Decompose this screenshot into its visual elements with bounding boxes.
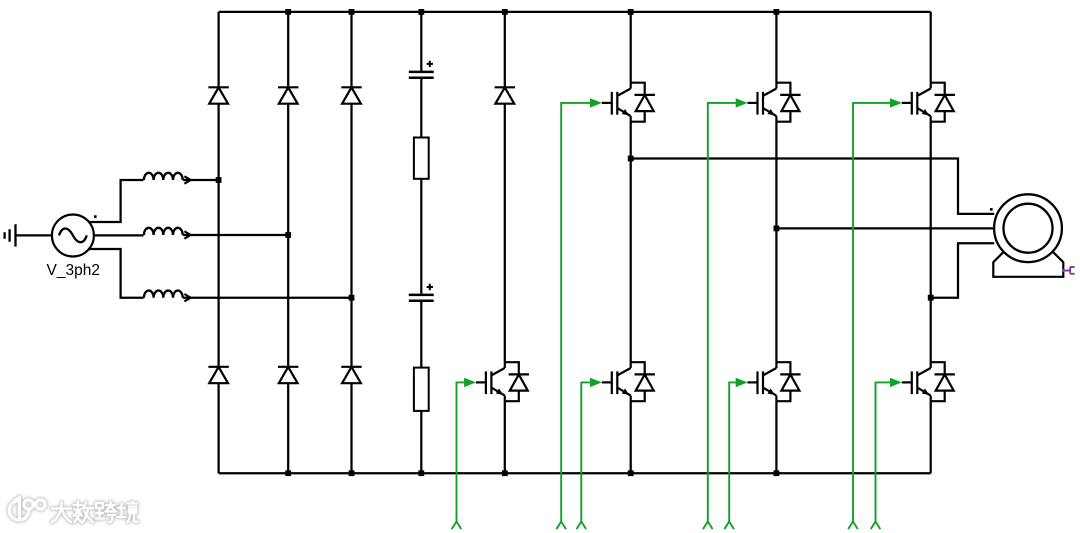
motor M1	[990, 194, 1063, 277]
diode D2	[278, 87, 298, 103]
wire phase C	[183, 297, 352, 299]
node phase A output	[628, 156, 634, 162]
gate wire Q1 (top col6)	[556, 98, 602, 529]
diode D7	[495, 87, 515, 103]
diode D5	[278, 367, 298, 383]
node bottom rail col4	[418, 470, 424, 476]
wire phase A to motor	[631, 159, 995, 214]
node top rail col3	[349, 9, 355, 15]
wire phase C to motor	[931, 243, 995, 298]
node phase C / column 3	[349, 295, 355, 301]
IGBT Q5 (bottom, col6)	[602, 362, 655, 401]
wire phase A	[183, 179, 219, 181]
node top rail col5	[502, 9, 508, 15]
watermark logo	[9, 498, 137, 523]
wire column 6	[630, 12, 632, 473]
node phase B output	[774, 226, 780, 232]
gate wire Q2 (top col7)	[703, 98, 748, 529]
wire source mid phase	[94, 234, 144, 236]
capacitor C1	[409, 61, 434, 78]
diode D1	[208, 87, 228, 103]
node bottom rail col5	[502, 470, 508, 476]
wire column 2	[287, 12, 289, 473]
wire phase B to motor	[776, 227, 994, 229]
bottom rail wire	[219, 472, 931, 474]
inductor L2	[144, 228, 191, 239]
node bottom rail col3	[349, 470, 355, 476]
IGBT Q3 (top, col8)	[902, 83, 955, 122]
wire ground to source	[16, 234, 53, 236]
IGBT Q6 (bottom, col7)	[748, 362, 801, 401]
wire column 1	[217, 12, 219, 473]
inductor L1	[144, 173, 191, 184]
wire source top phase	[89, 180, 143, 222]
svg-text:V_3ph2: V_3ph2	[47, 262, 100, 279]
diode D3	[341, 87, 361, 103]
wire column 7	[775, 12, 777, 473]
wire column 4 (DC link)	[420, 12, 422, 473]
wire column 8	[930, 12, 932, 473]
diode D4	[208, 367, 228, 383]
node phase C output	[928, 295, 934, 301]
node top rail col7	[774, 9, 780, 15]
top rail wire	[219, 11, 931, 13]
AC source V_3ph2	[52, 215, 97, 257]
resistor R2	[414, 368, 429, 411]
resistor R1	[414, 138, 429, 179]
IGBT Q1 (top, col6)	[602, 83, 655, 122]
ground	[5, 224, 16, 246]
node bottom rail col7	[774, 470, 780, 476]
node top rail col4	[418, 9, 424, 15]
node bottom rail col6	[628, 470, 634, 476]
wire column 5	[504, 12, 506, 473]
gate wire Q3 (top col8)	[848, 98, 902, 529]
IGBT Q4 (bottom, col5)	[476, 362, 529, 401]
node top rail col6	[628, 9, 634, 15]
gate wire Q7 (bottom col8)	[871, 378, 902, 529]
IGBT Q7 (bottom, col8)	[902, 362, 955, 401]
gate wire Q6 (bottom col7)	[724, 378, 747, 529]
gate wire Q4 (bottom col5)	[452, 378, 476, 529]
gate wire Q5 (bottom col6)	[577, 378, 602, 529]
inductor L3	[144, 291, 191, 302]
capacitor C2	[409, 284, 434, 301]
green gate drive wires	[452, 98, 902, 529]
diode D6	[341, 367, 361, 383]
node bottom rail col2	[285, 470, 291, 476]
wire phase B	[183, 234, 288, 236]
node top rail col2	[285, 9, 291, 15]
node phase A / column 1	[216, 177, 222, 183]
wire column 3	[350, 12, 352, 473]
motor shaft connector (purple)	[1063, 267, 1074, 274]
IGBT Q2 (top, col7)	[748, 83, 801, 122]
node phase B / column 2	[285, 232, 291, 238]
wire source bottom phase	[89, 249, 143, 298]
